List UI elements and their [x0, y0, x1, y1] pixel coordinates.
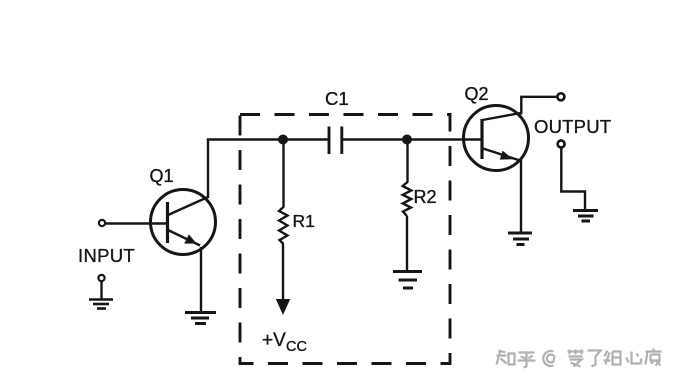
了: [588, 351, 601, 367]
wire R2 to ground: [406, 216, 408, 270]
ground Q1: [185, 311, 216, 314]
wire Q2 emitter down: [520, 160, 522, 233]
input terminal: [99, 220, 105, 226]
svg-text:INPUT: INPUT: [78, 245, 135, 266]
svg-text:Q1: Q1: [150, 166, 174, 186]
svg-text:+V: +V: [262, 330, 286, 351]
output lower terminal: [558, 141, 565, 148]
watermark 知乎@夢了絕心痕 (drawn strokes, no CJK font available): [497, 349, 662, 368]
dashed box: [240, 115, 450, 364]
svg-text:R1: R1: [293, 211, 315, 231]
ground Q2: [508, 232, 532, 235]
svg-text:R2: R2: [414, 187, 437, 207]
ground input: [89, 298, 113, 301]
transistor Q2: [464, 106, 529, 171]
wire input terminal to ground: [100, 281, 102, 299]
svg-text:Q2: Q2: [465, 84, 489, 104]
resistor R1: [279, 207, 288, 244]
transistor Q1: [151, 190, 216, 255]
@: [543, 351, 554, 366]
node dot A: [278, 135, 288, 145]
arrow to +VCC supply: [276, 299, 290, 315]
svg-text:C1: C1: [325, 88, 349, 109]
output upper terminal: [557, 93, 564, 100]
乎: [518, 353, 536, 368]
resistor R2: [403, 182, 412, 216]
wire input to Q1 base: [106, 222, 166, 224]
wire Q1 emitter down: [200, 247, 202, 312]
input lower terminal: [98, 275, 104, 281]
wire R1 to +VCC arrow: [282, 244, 284, 302]
svg-text:OUTPUT: OUTPUT: [534, 116, 611, 137]
wire bus right: [342, 138, 481, 140]
痕: [646, 349, 662, 366]
wire node A to R1: [282, 144, 284, 208]
svg-text:CC: CC: [286, 339, 307, 355]
心: [627, 352, 642, 364]
ground R2: [393, 270, 422, 273]
wire output lower to ground: [561, 148, 585, 210]
wire Q2 collector: [521, 97, 557, 115]
夢: [568, 350, 584, 367]
wire node B to R2: [406, 144, 408, 183]
絕: [604, 351, 621, 365]
ground output: [573, 209, 598, 212]
知: [497, 351, 515, 365]
capacitor C1: [328, 127, 331, 155]
node dot B: [402, 135, 412, 145]
wire bus left: [207, 138, 329, 140]
wire Q1 collector up: [207, 139, 209, 199]
